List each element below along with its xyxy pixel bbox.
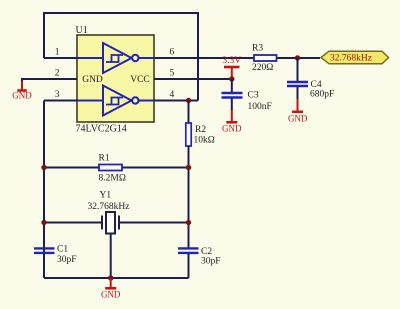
inverter U1A (77, 43, 154, 73)
capacitor C2 (178, 248, 199, 253)
ground left (17, 81, 27, 91)
svg-text:6: 6 (170, 48, 175, 58)
junction crystal right (186, 220, 191, 225)
IC U1 body (77, 35, 154, 122)
net flag 32.768kHz (321, 51, 389, 64)
wire R3 to flag (277, 57, 321, 59)
junction pin4 R2 (186, 98, 191, 103)
svg-text:GND: GND (288, 113, 308, 123)
wire pin4 (154, 100, 198, 102)
wire crystal row right (120, 222, 189, 224)
svg-text:R3: R3 (252, 44, 263, 54)
svg-text:GND: GND (12, 91, 32, 101)
junction R1 right (186, 165, 191, 170)
svg-text:Y1: Y1 (100, 191, 112, 201)
svg-text:GND: GND (222, 124, 242, 134)
wire pin2 (22, 78, 77, 80)
crystal Y1 (102, 212, 119, 278)
ground C4 (292, 99, 303, 112)
wire C3 down (231, 99, 233, 112)
svg-text:680pF: 680pF (310, 90, 334, 100)
wire pin6 to R3 (154, 57, 254, 59)
junction R1 left (41, 165, 46, 170)
resistor R1 (99, 165, 122, 171)
wire crystal row left (44, 222, 101, 224)
resistor R3 (254, 55, 277, 61)
capacitor C3 (222, 93, 243, 98)
svg-text:220Ω: 220Ω (252, 63, 273, 73)
svg-text:3.3V: 3.3V (222, 56, 241, 66)
wire feedback top (44, 13, 198, 101)
svg-text:C3: C3 (248, 91, 259, 101)
junction crystal left (41, 220, 46, 225)
svg-text:C1: C1 (57, 245, 68, 255)
wire pin5 (154, 78, 232, 80)
svg-text:3: 3 (55, 90, 60, 100)
svg-text:R2: R2 (195, 125, 206, 135)
svg-text:30pF: 30pF (201, 257, 221, 267)
wire R2 down (188, 146, 190, 248)
resistor R2 (186, 123, 191, 146)
wire C4 down (297, 87, 299, 100)
svg-text:GND: GND (82, 75, 103, 85)
svg-text:5: 5 (170, 69, 175, 79)
wire bottom (44, 277, 189, 279)
svg-text:100nF: 100nF (248, 102, 272, 112)
wire C2 down (188, 254, 190, 278)
wire pin4 to R2 (188, 101, 190, 124)
wire pin3 (44, 100, 77, 102)
wire pin2 gnd stem (21, 78, 23, 82)
wire pin5 to C3 (231, 79, 233, 92)
svg-text:30pF: 30pF (57, 255, 77, 265)
svg-text:R1: R1 (99, 154, 110, 164)
svg-text:VCC: VCC (130, 75, 150, 85)
svg-text:1: 1 (55, 48, 60, 58)
svg-text:C4: C4 (311, 80, 322, 90)
wire left vertical (43, 101, 45, 279)
svg-text:U1: U1 (76, 25, 88, 36)
svg-text:10kΩ: 10kΩ (194, 136, 215, 146)
wire pin6 to C4 (297, 58, 299, 81)
capacitor C4 (287, 82, 308, 86)
svg-text:74LVC2G14: 74LVC2G14 (76, 124, 127, 135)
svg-text:GND: GND (101, 289, 121, 299)
svg-text:32.768kHz: 32.768kHz (330, 53, 372, 63)
svg-text:2: 2 (55, 69, 60, 79)
wire pin1 (44, 57, 77, 59)
svg-text:32.768kHz: 32.768kHz (88, 202, 130, 212)
junction pin5 power (229, 76, 234, 81)
power 3.3V symbol (224, 67, 240, 79)
junction bottom gnd (108, 275, 113, 280)
svg-text:C2: C2 (201, 247, 212, 257)
capacitor C1 (34, 248, 55, 253)
svg-text:4: 4 (170, 90, 175, 100)
ground bottom (105, 278, 116, 288)
svg-text:8.2MΩ: 8.2MΩ (99, 174, 126, 184)
inverter U1B (77, 86, 154, 116)
junction pin6 C4 (295, 55, 300, 60)
ground C3 (226, 110, 237, 122)
wire R1 row (44, 167, 189, 169)
wire C1 down (43, 254, 45, 278)
